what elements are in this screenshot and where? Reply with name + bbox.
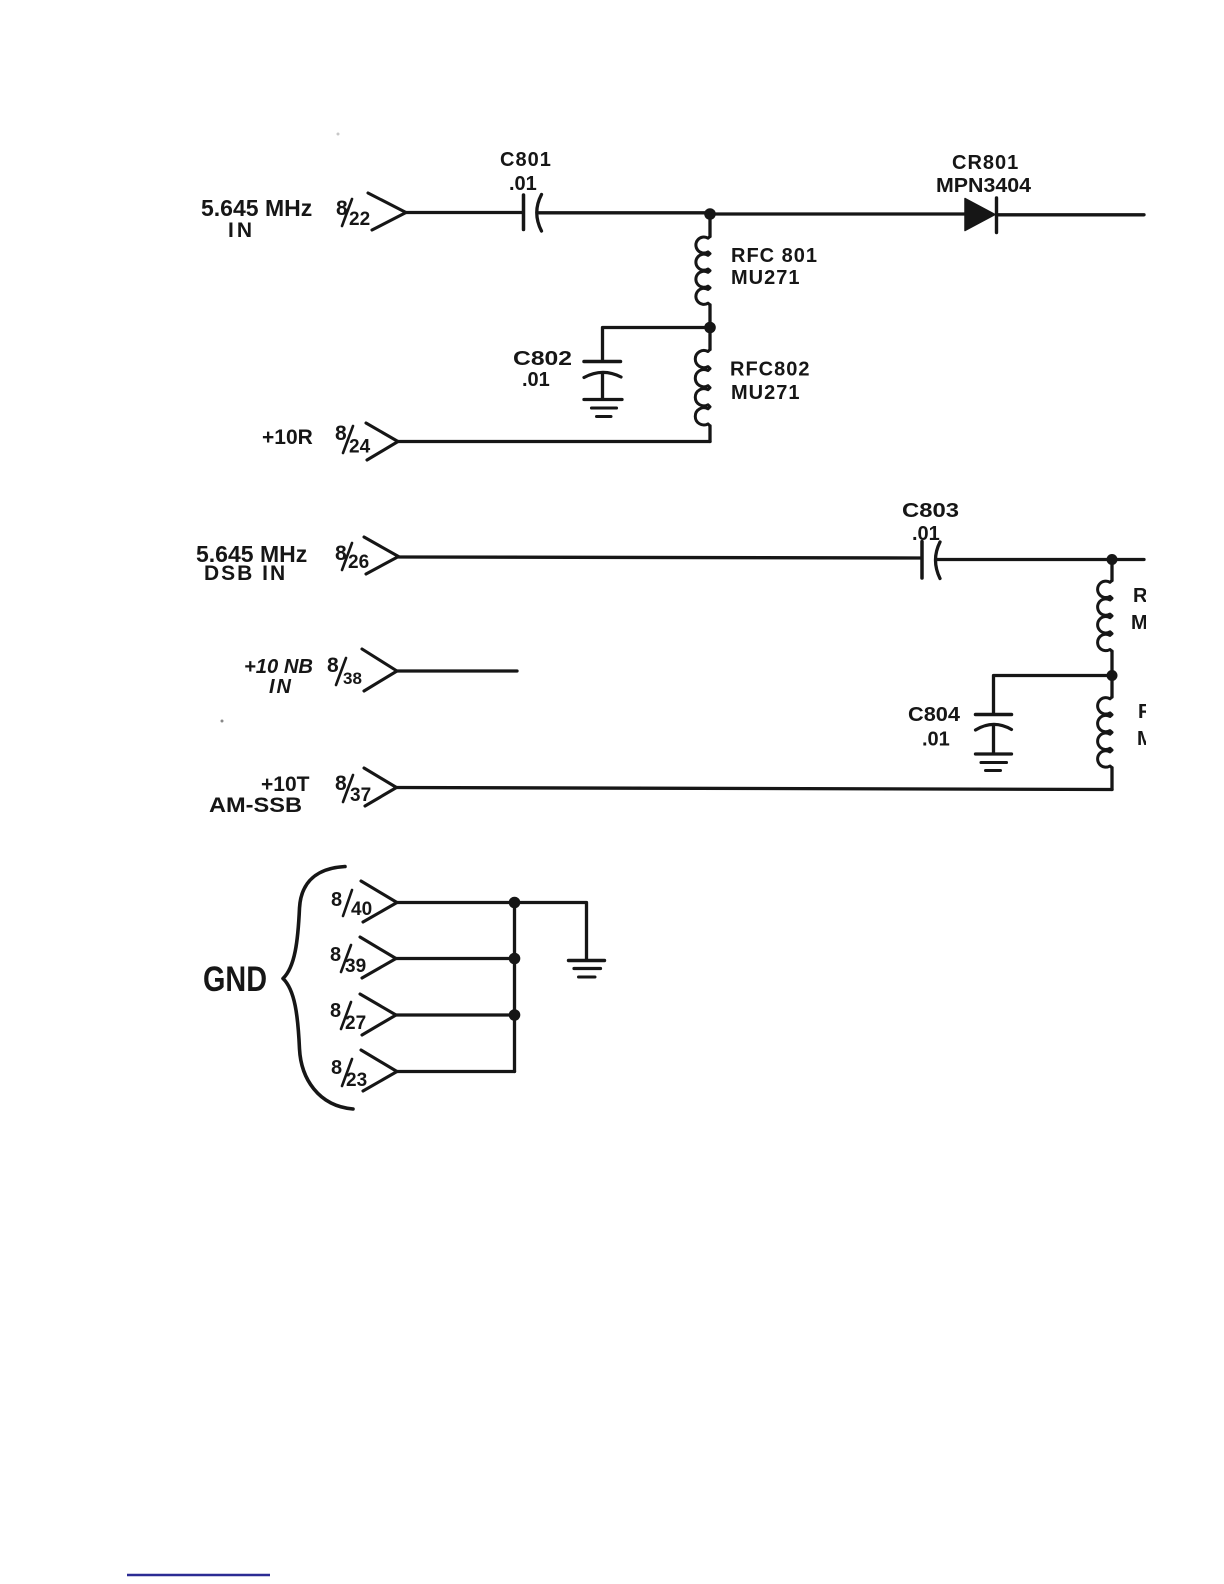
- svg-text:23: 23: [346, 1070, 367, 1091]
- capacitor C804: [908, 676, 1112, 754]
- svg-text:.01: .01: [912, 523, 940, 545]
- wire: [710, 212, 965, 215]
- capacitor C803: [902, 500, 959, 579]
- wire: [396, 1013, 515, 1016]
- node junction 2: [704, 322, 716, 334]
- svg-text:MU271: MU271: [731, 382, 800, 404]
- connector 8/27: [330, 994, 396, 1035]
- svg-text:C801: C801: [500, 149, 552, 171]
- svg-text:RFC 801: RFC 801: [731, 245, 818, 267]
- ground: [569, 961, 605, 978]
- wire: [397, 1070, 515, 1073]
- node: [509, 953, 521, 965]
- inductor RFC801: [696, 214, 818, 328]
- capacitor C801: [500, 149, 552, 231]
- svg-text:8: 8: [331, 889, 342, 911]
- wire: [937, 558, 1144, 561]
- artifact dot: [337, 133, 340, 136]
- svg-text:.01: .01: [509, 173, 537, 195]
- inductor RFC804 (label cut off): [1098, 676, 1170, 790]
- svg-text:5.645 MHz: 5.645 MHz: [201, 195, 312, 221]
- svg-text:MPN3404: MPN3404: [936, 175, 1032, 197]
- wire: [396, 957, 515, 960]
- node junction 3: [1107, 554, 1118, 565]
- net label +10R: [262, 426, 313, 449]
- connector 8/23: [331, 1050, 397, 1091]
- wire: [539, 211, 706, 214]
- svg-text:+10T: +10T: [261, 773, 310, 796]
- artifact dot: [221, 720, 224, 723]
- svg-text:AM-SSB: AM-SSB: [209, 794, 302, 817]
- svg-text:8: 8: [330, 1000, 341, 1022]
- wire ground bus: [513, 903, 516, 1072]
- net label 5.645 MHz IN: [201, 195, 312, 242]
- connector 8/37: [335, 768, 397, 806]
- svg-text:C804: C804: [908, 704, 961, 726]
- svg-text:.01: .01: [922, 729, 950, 751]
- svg-text:26: 26: [348, 552, 369, 573]
- connector 8/38: [327, 649, 397, 691]
- svg-text:C802: C802: [513, 348, 572, 370]
- wire: [398, 440, 710, 443]
- connector 8/39: [330, 937, 396, 978]
- svg-text:MU271: MU271: [731, 267, 800, 289]
- svg-text:C803: C803: [902, 500, 959, 522]
- brace: [283, 867, 353, 1110]
- wire: [399, 557, 921, 558]
- capacitor C802: [513, 328, 710, 399]
- ground: [584, 400, 622, 417]
- svg-text:8: 8: [331, 1057, 342, 1079]
- svg-text:RFC802: RFC802: [730, 359, 810, 381]
- svg-text:+10R: +10R: [262, 426, 313, 449]
- svg-text:CR801: CR801: [952, 152, 1019, 174]
- svg-text:8: 8: [327, 654, 339, 677]
- connector 8/26: [335, 537, 399, 574]
- connector 8/22: [336, 193, 406, 230]
- net label 5.645 MHz DSB IN: [196, 541, 307, 585]
- node: [509, 1009, 521, 1021]
- inductor RFC802: [695, 328, 810, 442]
- footer rule (blue): [127, 1574, 270, 1577]
- node junction 4: [1107, 670, 1118, 681]
- net label +10T AM-SSB: [209, 773, 310, 817]
- svg-text:24: 24: [349, 437, 371, 458]
- svg-text:8: 8: [335, 772, 347, 795]
- net label +10 NB IN: [244, 656, 313, 698]
- wire: [397, 901, 515, 904]
- wire: [406, 211, 522, 214]
- svg-text:IN: IN: [228, 219, 255, 242]
- svg-text:8: 8: [335, 422, 347, 445]
- connector 8/24: [335, 422, 398, 460]
- svg-text:GND: GND: [203, 960, 267, 999]
- wire: [515, 903, 587, 961]
- svg-text:22: 22: [349, 209, 370, 230]
- svg-text:8: 8: [330, 944, 341, 966]
- svg-text:DSB IN: DSB IN: [204, 562, 287, 585]
- node: [509, 897, 521, 909]
- svg-text:38: 38: [343, 669, 362, 688]
- svg-text:40: 40: [351, 899, 372, 920]
- inductor RFC803 (label cut off): [1098, 560, 1164, 676]
- wire: [397, 669, 517, 672]
- svg-text:.01: .01: [522, 369, 550, 391]
- svg-text:IN: IN: [269, 676, 293, 698]
- node junction 1: [704, 208, 716, 220]
- wire: [397, 788, 1112, 790]
- svg-text:27: 27: [345, 1013, 366, 1034]
- wire: [997, 213, 1144, 216]
- ground: [976, 754, 1012, 771]
- connector 8/40: [331, 881, 397, 922]
- svg-text:37: 37: [350, 785, 371, 806]
- net label GND: [203, 960, 267, 999]
- svg-text:+10 NB: +10 NB: [244, 656, 313, 678]
- svg-text:39: 39: [345, 956, 366, 977]
- diode CR801: [936, 152, 1032, 233]
